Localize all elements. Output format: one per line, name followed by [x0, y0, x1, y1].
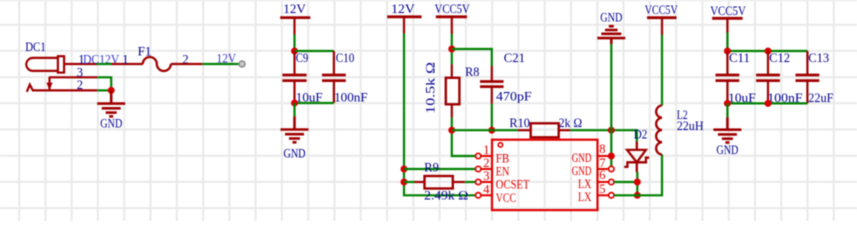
wire top rail C11-C13: [727, 50, 807, 52]
junction GND rail crossing: [608, 127, 615, 134]
svg-text:DC1: DC1: [25, 40, 46, 54]
svg-text:6: 6: [599, 168, 605, 182]
svg-text:R8: R8: [465, 65, 479, 79]
svg-text:12V: 12V: [283, 2, 306, 16]
net port dot: [239, 61, 245, 67]
wire pin2 to junction: [97, 89, 111, 91]
pin 5 LX: [578, 182, 614, 204]
pin 6 LX: [578, 168, 614, 191]
F1 pin number 1: [122, 52, 128, 66]
svg-text:C11: C11: [729, 51, 750, 65]
L2 value label 22uH: [677, 119, 704, 133]
svg-text:GND: GND: [284, 147, 306, 161]
svg-text:1: 1: [122, 52, 128, 66]
svg-text:GND: GND: [600, 11, 622, 25]
svg-text:22uF: 22uF: [808, 91, 833, 105]
GND label under DC1: [100, 116, 122, 130]
svg-text:12V: 12V: [391, 2, 415, 16]
DC1 switch bar with arrow: [46, 77, 52, 90]
svg-text:C12: C12: [769, 51, 790, 65]
svg-text:VCC: VCC: [496, 191, 516, 205]
wire 12V flag to junction: [293, 35, 295, 52]
junction D2 at pin 5 row: [634, 192, 641, 199]
wire 12V rail to R9: [404, 181, 415, 183]
junction 12V rail OCSET row: [401, 179, 408, 186]
svg-text:2: 2: [483, 156, 489, 170]
svg-text:470pF: 470pF: [496, 90, 532, 104]
C21 value label 470pF: [496, 90, 532, 104]
wire bottom rail to ground: [726, 103, 728, 117]
R10 designator label: [509, 116, 530, 130]
wire GND flag down to pin 7: [610, 44, 612, 166]
DC1 pin number 3: [77, 66, 83, 80]
wire to 12V port: [202, 63, 239, 65]
resistor R10: [518, 123, 570, 137]
DC1 pin number 1: [78, 52, 84, 66]
svg-text:LX: LX: [578, 190, 592, 204]
C12 value label 100nF: [767, 91, 802, 105]
C9 value label 10uF: [296, 90, 323, 104]
op-amp U1 (regulator IC) body: [492, 140, 598, 210]
junction 12V rail EN row: [401, 166, 408, 173]
svg-text:2.49k Ω: 2.49k Ω: [424, 189, 468, 203]
svg-text:8: 8: [599, 142, 605, 156]
DC1 pin number 2: [77, 78, 83, 92]
junction top rail C12: [765, 48, 772, 55]
pin 1 FB: [476, 143, 510, 166]
junction top rail C11: [724, 48, 731, 55]
wire R10 to D2 top: [570, 130, 637, 141]
ground GND under C9: [281, 117, 309, 143]
ground GND under DC1: [97, 90, 125, 116]
D2 designator label: [634, 127, 648, 141]
L2 designator label: [677, 108, 688, 122]
ground GND under C11: [713, 117, 741, 142]
svg-text:GND: GND: [572, 151, 592, 165]
wire DC12V to fuse: [112, 63, 143, 65]
DC1 pin 2 spring contact and lead: [27, 85, 98, 92]
svg-text:R9: R9: [424, 160, 439, 174]
junction top of C9: [291, 48, 298, 55]
DC1 designator label: [25, 40, 46, 54]
svg-text:GND: GND: [572, 164, 592, 178]
svg-text:3: 3: [483, 169, 489, 183]
F1 pin 2 lead: [171, 63, 203, 65]
GND label under C11: [716, 143, 738, 157]
pin 8 GND: [572, 142, 609, 165]
svg-text:VCC5V: VCC5V: [645, 3, 678, 17]
svg-text:22uH: 22uH: [677, 119, 704, 133]
svg-text:R10: R10: [509, 116, 530, 130]
wire R9 to OCSET: [465, 181, 476, 183]
capacitor C12: [756, 51, 780, 103]
svg-text:GND: GND: [716, 143, 738, 157]
R9 value label 2.49k ohm: [424, 189, 468, 203]
DC1 pin 3 lead: [49, 76, 97, 78]
pin 3 OCSET: [476, 169, 530, 192]
wire junction to ground: [293, 103, 295, 117]
svg-text:C13: C13: [808, 51, 829, 65]
inductor L2: [656, 106, 662, 155]
F1 designator label: [138, 45, 152, 59]
C11 value label 10uF: [728, 91, 756, 105]
wire bottom rail C11-C13: [727, 102, 807, 104]
wire pin 5 to L2: [614, 155, 662, 196]
R9 designator label: [424, 160, 439, 174]
junction FB node C21: [488, 127, 495, 134]
net port 12V label: [217, 52, 237, 66]
capacitor C21: [480, 66, 504, 104]
fuse F1: [143, 57, 171, 71]
C13 value label 22uF: [808, 91, 833, 105]
C9 designator label: [296, 51, 309, 65]
svg-text:GND: GND: [100, 116, 122, 130]
wire VCC5V to L2 top: [661, 35, 663, 106]
junction bottom rail C11: [724, 100, 731, 107]
svg-text:12V: 12V: [217, 52, 237, 66]
svg-text:2k Ω: 2k Ω: [559, 116, 583, 130]
wire C21 bottom to FB row: [491, 104, 493, 130]
F1 pin number 2: [182, 52, 188, 66]
pin 7 GND: [572, 156, 614, 178]
wire under DC12V label: [97, 63, 112, 65]
power flag 12V (C9 group): [280, 2, 310, 35]
net label DC12V: [83, 52, 119, 66]
wire D2 bottom to LX rows: [636, 172, 638, 195]
power flag VCC5V (R8/C21): [435, 2, 470, 34]
junction FB node left: [448, 127, 455, 134]
junction VCC5V node: [448, 46, 455, 53]
diode D2 (schottky): [624, 142, 649, 173]
svg-text:LX: LX: [578, 177, 592, 191]
junction bottom of C9: [291, 100, 298, 107]
C10 value label 100nF: [334, 90, 368, 104]
C11 designator label: [729, 51, 750, 65]
GND label under C9: [284, 147, 306, 161]
junction GND at pin 8: [608, 153, 615, 160]
pin 2 EN: [476, 156, 510, 179]
wire 12V rail down to VCC pin: [404, 34, 476, 196]
R8 value label 10.5k ohm (rotated): [424, 62, 438, 114]
svg-text:EN: EN: [496, 165, 510, 179]
DC1 pin 1 lead: [64, 63, 96, 65]
svg-text:2: 2: [77, 78, 83, 92]
svg-text:VCC5V: VCC5V: [710, 4, 746, 18]
capacitor C13: [796, 51, 820, 103]
wire top rail C9-C10: [295, 50, 334, 52]
svg-text:4: 4: [483, 182, 490, 196]
svg-text:OCSET: OCSET: [496, 178, 530, 192]
resistor R8: [446, 65, 460, 118]
power flag VCC5V (L2): [645, 3, 678, 35]
junction at DC1 pin2 node: [108, 87, 115, 94]
wire FB node to R10: [452, 129, 518, 131]
wire VCC5V node to C21: [452, 49, 492, 66]
resistor R9: [415, 176, 465, 189]
pin 4 VCC: [476, 182, 517, 205]
junction bottom rail C12: [765, 100, 772, 107]
capacitor C11: [716, 51, 740, 103]
power flag GND (top): [597, 11, 625, 44]
R10 value label 2k ohm: [559, 116, 583, 130]
svg-text:D2: D2: [634, 127, 648, 141]
capacitor C10: [322, 51, 346, 103]
wire R8 bottom to FB pin: [452, 118, 476, 157]
junction D2 at pin 6 row: [634, 179, 641, 186]
R8 designator label: [465, 65, 479, 79]
pin 1 indicator dot: [498, 143, 502, 147]
svg-text:5: 5: [599, 182, 605, 196]
power flag 12V (rail to U left pins): [387, 2, 421, 34]
wire bottom rail C9-C10: [295, 102, 334, 104]
wire pin 6 to D2: [614, 181, 637, 183]
C13 designator label: [808, 51, 829, 65]
power flag VCC5V (C11 group): [710, 4, 746, 32]
C12 designator label: [769, 51, 790, 65]
svg-text:1: 1: [483, 143, 489, 157]
capacitor C9: [282, 51, 306, 103]
wire VCC5V to R8 top: [451, 34, 453, 65]
connector DC1 barrel: [26, 56, 64, 72]
svg-text:C10: C10: [336, 51, 355, 65]
svg-text:FB: FB: [496, 152, 510, 166]
svg-text:10.5k Ω: 10.5k Ω: [424, 62, 438, 114]
svg-text:F1: F1: [138, 45, 152, 59]
C10 designator label: [336, 51, 355, 65]
wire VCC5V to top rail: [726, 33, 728, 52]
svg-text:100nF: 100nF: [334, 90, 368, 104]
svg-text:VCC5V: VCC5V: [435, 2, 470, 16]
wire EN row: [404, 168, 476, 170]
svg-text:C9: C9: [296, 51, 309, 65]
wire pin3 to junction: [97, 77, 111, 90]
C21 designator label: [504, 51, 525, 65]
svg-text:C21: C21: [504, 51, 525, 65]
